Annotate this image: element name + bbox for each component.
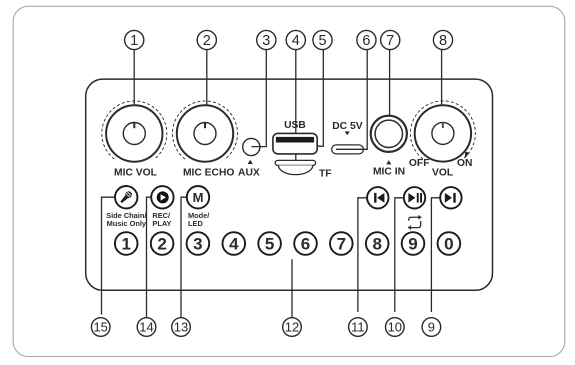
svg-text:14: 14 <box>139 320 153 335</box>
svg-text:PLAY: PLAY <box>152 219 171 228</box>
svg-text:2: 2 <box>203 33 211 49</box>
svg-text:MIC VOL: MIC VOL <box>114 167 157 178</box>
svg-text:8: 8 <box>439 33 447 49</box>
svg-text:MIC IN: MIC IN <box>373 166 405 177</box>
svg-text:13: 13 <box>174 320 188 335</box>
svg-text:VOL: VOL <box>432 167 453 178</box>
svg-text:1: 1 <box>130 33 138 49</box>
svg-text:4: 4 <box>229 235 239 254</box>
svg-text:4: 4 <box>292 33 300 49</box>
svg-text:12: 12 <box>285 320 299 335</box>
svg-text:Music Only: Music Only <box>107 219 147 228</box>
svg-text:USB: USB <box>284 120 306 131</box>
svg-text:2: 2 <box>157 235 166 254</box>
svg-text:7: 7 <box>337 235 346 254</box>
svg-text:9: 9 <box>408 235 417 254</box>
svg-text:3: 3 <box>193 235 202 254</box>
svg-text:8: 8 <box>372 235 381 254</box>
svg-text:3: 3 <box>262 33 270 49</box>
svg-text:10: 10 <box>388 320 402 335</box>
svg-text:DC 5V: DC 5V <box>332 121 362 132</box>
svg-text:TF: TF <box>319 169 332 180</box>
svg-text:5: 5 <box>265 235 274 254</box>
svg-text:LED: LED <box>188 219 203 228</box>
svg-text:MIC ECHO: MIC ECHO <box>183 167 235 178</box>
svg-text:1: 1 <box>121 235 130 254</box>
svg-text:6: 6 <box>362 33 370 49</box>
svg-text:ON: ON <box>457 158 472 169</box>
svg-text:AUX: AUX <box>238 167 260 178</box>
svg-text:5: 5 <box>318 33 326 49</box>
svg-text:OFF: OFF <box>409 158 430 169</box>
svg-text:6: 6 <box>301 235 310 254</box>
svg-text:M: M <box>193 190 204 205</box>
svg-text:15: 15 <box>93 320 107 335</box>
svg-text:9: 9 <box>428 320 435 335</box>
svg-text:11: 11 <box>351 320 365 335</box>
svg-text:0: 0 <box>444 235 453 254</box>
svg-text:7: 7 <box>386 33 394 49</box>
